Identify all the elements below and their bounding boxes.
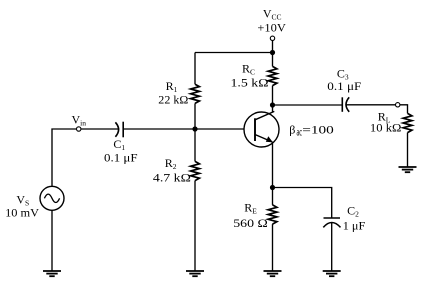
wire top horizontal <box>195 52 273 54</box>
wire Vin to C1 <box>81 128 118 130</box>
ground C2 <box>323 271 341 276</box>
wire emitter down <box>272 142 274 188</box>
wire RL to ground <box>407 133 409 167</box>
capacitor C1 0.1 uF <box>104 122 138 165</box>
node base junction <box>192 126 197 131</box>
node Vin terminal <box>71 113 86 132</box>
wire R1 to base node <box>194 103 196 129</box>
ground RL <box>399 167 417 172</box>
svg-text:0.1 μF: 0.1 μF <box>327 79 361 93</box>
wire emitter node to C2 <box>273 188 332 219</box>
wire base node to R2 <box>194 129 196 161</box>
resistor R2 4.7 kOhm <box>153 156 200 184</box>
source VS 10 mV <box>5 186 64 219</box>
wire output terminal to RL <box>400 105 408 114</box>
svg-text:β: β <box>289 122 295 136</box>
wire collector node to C3 <box>273 104 343 106</box>
svg-text:10 mV: 10 mV <box>5 205 39 219</box>
node VCC junction <box>270 50 275 55</box>
svg-text:10 kΩ: 10 kΩ <box>370 121 402 135</box>
resistor RC 1.5 kOhm <box>231 62 277 90</box>
svg-text:+10V: +10V <box>257 20 286 34</box>
wire C3 to output terminal <box>346 104 395 106</box>
capacitor C2 1 uF <box>323 204 365 233</box>
ground R2 <box>186 271 204 276</box>
svg-text:1 μF: 1 μF <box>343 218 366 232</box>
wire VCC to junction <box>272 41 274 53</box>
resistor R1 22 kOhm <box>158 79 199 106</box>
svg-text:1.5 kΩ: 1.5 kΩ <box>231 75 269 89</box>
capacitor C3 0.1 uF <box>327 67 361 112</box>
node emitter junction <box>270 185 275 190</box>
transistor Q1 <box>244 111 334 147</box>
svg-text:=100: =100 <box>302 122 334 136</box>
wire Vin to VS <box>52 129 77 186</box>
wire VS to ground <box>51 210 53 271</box>
ground RE <box>264 271 282 276</box>
svg-text:560 Ω: 560 Ω <box>233 216 268 230</box>
wire emitter node to RE <box>272 188 274 205</box>
node output terminal <box>396 103 400 107</box>
resistor RE 560 Ohm <box>233 201 277 231</box>
wire C1 to base node <box>123 128 195 130</box>
ground VS <box>43 271 61 276</box>
wire C2 to ground <box>331 223 333 271</box>
svg-text:4.7 kΩ: 4.7 kΩ <box>153 171 191 185</box>
svg-text:0.1 μF: 0.1 μF <box>104 151 138 165</box>
wire collector node down to transistor <box>272 105 274 112</box>
node VCC terminal <box>257 6 286 40</box>
svg-text:ac: ac <box>297 125 303 139</box>
wire RE to ground <box>272 224 274 271</box>
wire base node to transistor <box>195 128 245 130</box>
wire RC to collector node <box>272 86 274 105</box>
resistor RL 10 kOhm <box>370 110 412 135</box>
wire R2 to ground <box>194 181 196 271</box>
wire VCC junction to RC <box>272 53 274 67</box>
node collector junction <box>270 102 275 107</box>
wire top to R1 <box>194 53 196 85</box>
svg-text:22 kΩ: 22 kΩ <box>158 92 188 106</box>
